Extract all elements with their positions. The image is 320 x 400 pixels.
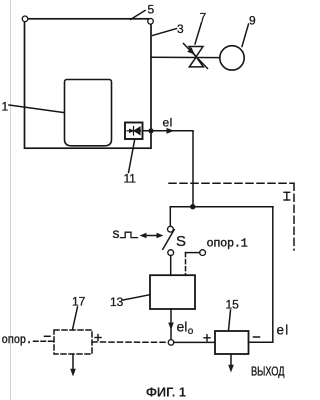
valve symbol inside box 11 bbox=[127, 127, 141, 135]
label I bbox=[284, 192, 290, 200]
valve control arrow bbox=[184, 44, 208, 69]
label 11 bbox=[124, 141, 137, 186]
svg-text:s: s bbox=[113, 225, 120, 241]
dashed wire into box 13 bbox=[185, 253, 187, 275]
label minus box 17 input bbox=[45, 335, 51, 337]
wire el0 output bbox=[168, 309, 174, 340]
dashed wire box 17 to node bbox=[92, 341, 168, 343]
scan edge line bbox=[10, 0, 12, 400]
wire rail to switch bbox=[169, 207, 171, 227]
label 17 bbox=[72, 295, 86, 330]
label 15 bbox=[226, 298, 240, 331]
svg-text:опор.: опор. bbox=[2, 333, 33, 347]
rail wire bbox=[170, 206, 273, 208]
label plus box 17 output bbox=[95, 335, 101, 341]
dashed wire опор to box 17 bbox=[34, 340, 54, 342]
svg-text:17: 17 bbox=[72, 295, 86, 309]
node circle el0 bbox=[168, 340, 174, 346]
corner circle left bbox=[22, 16, 28, 22]
label plus box 15 input bbox=[204, 335, 210, 341]
feedback wire el bbox=[249, 207, 273, 343]
reference contact circle bbox=[200, 250, 206, 256]
junction node on enclosure wall bbox=[148, 128, 153, 133]
amplifier box 15 bbox=[215, 331, 249, 354]
svg-text:ВЫХОД: ВЫХОД bbox=[251, 363, 285, 378]
svg-text:13: 13 bbox=[110, 295, 124, 309]
switch S upper contact bbox=[168, 226, 174, 232]
comparator box 13 bbox=[150, 275, 195, 309]
svg-text:15: 15 bbox=[226, 298, 240, 312]
summator box 17 bbox=[54, 330, 92, 354]
output arrow box 15 bbox=[228, 354, 234, 373]
wire switch to box 13 bbox=[170, 256, 172, 276]
wire el vertical bbox=[192, 131, 194, 207]
svg-text:опор.1: опор.1 bbox=[207, 237, 248, 251]
pump 9 bbox=[220, 46, 244, 70]
svg-text:1: 1 bbox=[2, 100, 9, 114]
switch S blade bbox=[163, 230, 174, 250]
svg-text:11: 11 bbox=[124, 172, 137, 186]
switch S lower contact bbox=[168, 250, 174, 256]
dashed boundary I vertical bbox=[293, 183, 295, 250]
svg-text:3: 3 bbox=[177, 22, 184, 36]
label 3 bbox=[153, 22, 185, 36]
output arrow box 17 bbox=[70, 354, 76, 377]
svg-text:elo: elo bbox=[177, 318, 194, 337]
dashed boundary I horizontal bbox=[169, 182, 294, 184]
wire el from box 11 to corner bbox=[143, 128, 194, 134]
junction node bbox=[190, 204, 195, 209]
svg-text:9: 9 bbox=[249, 14, 256, 28]
label 5 bbox=[131, 2, 155, 19]
valve 7 bbox=[189, 47, 203, 67]
svg-text:el: el bbox=[163, 116, 173, 130]
label minus box 15 bbox=[254, 336, 260, 338]
svg-text:el: el bbox=[277, 322, 290, 337]
tank 1 bbox=[65, 80, 112, 146]
wire node to box 15 bbox=[174, 341, 215, 343]
label 7 bbox=[195, 11, 207, 45]
svg-text:5: 5 bbox=[148, 2, 155, 16]
actuation arrow bbox=[140, 233, 164, 238]
corner circle right bbox=[148, 19, 154, 25]
enclosure 5 outer rectangle bbox=[25, 19, 152, 148]
svg-text:7: 7 bbox=[200, 11, 207, 25]
label 9 bbox=[242, 14, 256, 47]
pulse symbol bbox=[121, 232, 138, 237]
label 13 bbox=[110, 295, 150, 309]
svg-text:ФИГ. 1: ФИГ. 1 bbox=[146, 385, 186, 400]
heater box 11 bbox=[125, 123, 143, 140]
label 1 bbox=[2, 100, 64, 114]
svg-text:S: S bbox=[176, 233, 186, 250]
pipe from enclosure to pump bbox=[151, 56, 220, 58]
wire from reference contact bbox=[186, 252, 200, 254]
